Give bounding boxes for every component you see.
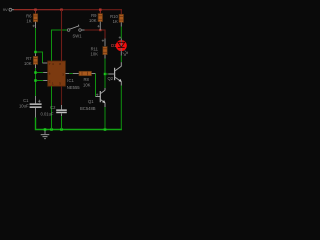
node junction R9-switch wire xyxy=(99,29,101,31)
node junction gnd-Q1 emitter xyxy=(104,128,107,131)
svg-text:10K: 10K xyxy=(91,52,99,57)
wire IC pin 5 to C2 xyxy=(61,86,63,105)
resistor R8 10K (horizontal) xyxy=(65,71,95,87)
svg-text:IC1: IC1 xyxy=(67,78,74,83)
IC IC1 NE555 timer xyxy=(48,61,81,90)
ground xyxy=(41,131,50,139)
transistor Q2 xyxy=(108,62,122,85)
resistor R11 10K xyxy=(91,39,108,59)
node junction rail-R6 xyxy=(34,9,36,11)
svg-text:C2: C2 xyxy=(50,105,56,110)
wire junction B to IC pin 6 xyxy=(37,72,43,74)
wire R7 to C1 xyxy=(35,68,37,96)
svg-text:R8: R8 xyxy=(84,77,90,82)
wire R10 to LED xyxy=(120,27,122,39)
capacitor C2 0.01uF xyxy=(40,105,66,117)
wire ground rail xyxy=(45,129,122,131)
node junction C (pin2) xyxy=(34,79,37,82)
svg-text:D1: D1 xyxy=(111,43,117,48)
wire junction A to IC pin 7 xyxy=(37,52,43,63)
node junction gnd-pin1 xyxy=(50,128,53,131)
node junction gnd-symbol xyxy=(44,128,47,131)
svg-text:9V: 9V xyxy=(3,7,8,12)
LED D1 xyxy=(111,39,127,56)
svg-text:10K: 10K xyxy=(24,61,32,66)
svg-text:BC548B: BC548B xyxy=(80,106,96,111)
wire rail to IC pin 8 (Vcc) xyxy=(61,10,63,61)
svg-text:10uF: 10uF xyxy=(19,104,29,109)
node junction D (Q2 base) xyxy=(104,73,107,76)
svg-text:SW1: SW1 xyxy=(73,34,83,39)
wire C2 to ground rail xyxy=(61,116,63,130)
node junction gnd-C2 xyxy=(60,128,63,131)
resistor R9 10K xyxy=(89,10,102,30)
svg-text:Q2: Q2 xyxy=(108,76,114,81)
svg-text:Q1: Q1 xyxy=(88,99,94,104)
node junction rail-R9 xyxy=(99,9,101,11)
transistor Q1 xyxy=(80,88,106,111)
resistor R10 1K xyxy=(110,10,123,27)
wire LED to Q2 collector xyxy=(120,56,122,63)
wire VCC rail segment 3 xyxy=(62,9,122,11)
capacitor C1 10uF xyxy=(19,96,42,118)
wire VCC rail segment 1 xyxy=(14,9,36,11)
svg-text:10K: 10K xyxy=(89,18,97,23)
svg-text:0.01uF: 0.01uF xyxy=(40,112,53,117)
wire Q1 emitter to ground rail xyxy=(104,107,106,130)
svg-text:10K: 10K xyxy=(83,82,91,87)
wire IC pin 1 to ground rail xyxy=(51,86,53,129)
wire R11 to Q2 base junction and Q1 collector xyxy=(104,59,106,73)
svg-text:C1: C1 xyxy=(23,98,29,103)
wire VCC rail segment 2 xyxy=(36,9,62,11)
wire junction D to Q2 base xyxy=(105,73,108,75)
node junction rail-IC pin8 xyxy=(60,9,62,11)
wire R6 to junction A xyxy=(35,28,37,51)
wire C1 to ground rail xyxy=(36,118,46,130)
node 9V terminal xyxy=(3,7,14,12)
svg-text:NE555: NE555 xyxy=(67,85,80,90)
svg-text:1K: 1K xyxy=(26,18,31,23)
switch SW1 xyxy=(67,25,84,39)
resistor R7 10K xyxy=(24,53,38,68)
wire IC pin4 to switch (vertical + horizontal) xyxy=(52,30,68,61)
node junction A (R6/R7/pin7) xyxy=(34,51,37,54)
svg-text:1K: 1K xyxy=(113,19,118,24)
wire switch to R11 column xyxy=(85,30,106,39)
wire junction D to Q1 collector xyxy=(104,75,106,88)
wire junction C to IC pin 2 xyxy=(37,80,43,82)
resistor R6 1K xyxy=(26,10,38,28)
wire R8 to Q1 base xyxy=(95,74,97,97)
wire Q2 emitter to ground rail xyxy=(120,86,122,130)
node junction B (pin6) xyxy=(34,71,37,74)
